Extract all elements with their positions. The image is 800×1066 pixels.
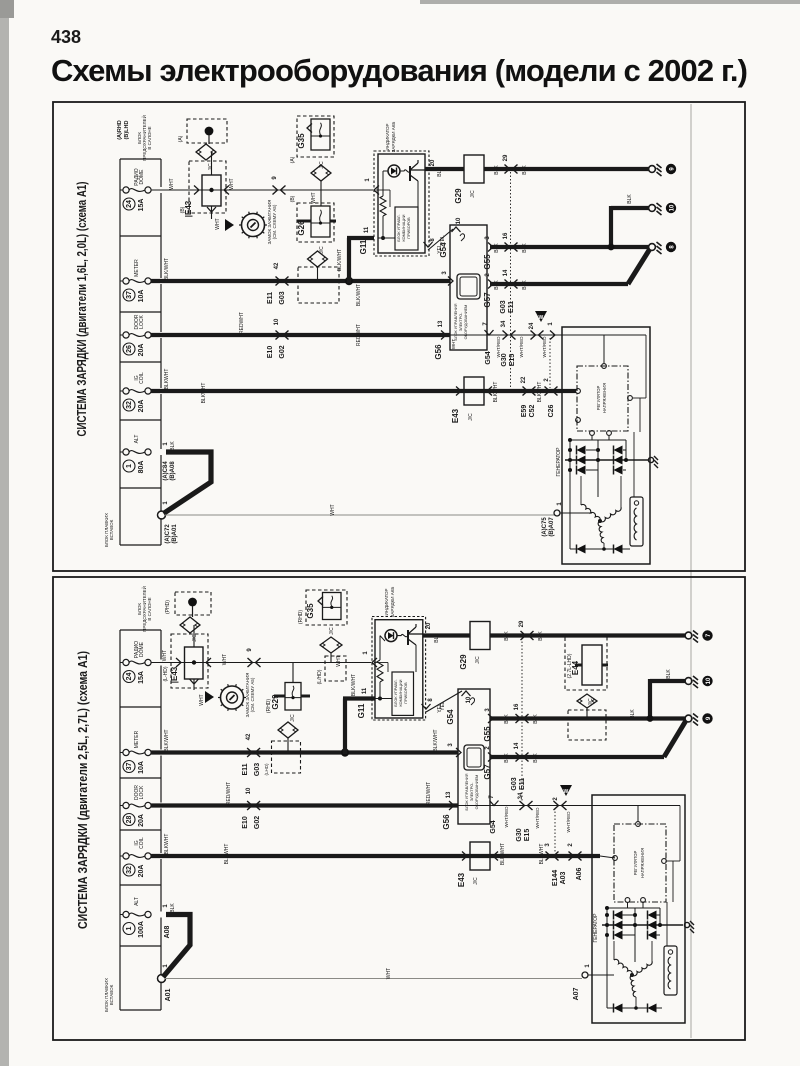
svg-text:BLK: BLK: [504, 753, 510, 763]
bus G57 to ground8 d1: [490, 282, 628, 286]
svg-text:16: 16: [503, 232, 509, 239]
svg-text:СИСТЕМА ЗАРЯДКИ (двигатели 1,6: СИСТЕМА ЗАРЯДКИ (двигатели 1,6L, 2,0L) (…: [75, 182, 89, 437]
svg-text:13: 13: [438, 320, 444, 327]
control block box in G11 d1: [395, 207, 418, 250]
svg-text:11: 11: [362, 687, 368, 694]
pin 7 G54 out d2: [490, 801, 499, 806]
svg-text:|E43: |E43: [184, 200, 193, 217]
fuse 1 80A: [120, 435, 151, 474]
svg-text:G56: G56: [434, 344, 443, 360]
svg-text:14: 14: [503, 269, 509, 276]
fuse 28 20A d2: [120, 785, 151, 827]
svg-text:LOCK: LOCK: [139, 315, 145, 329]
svg-text:WHT: WHT: [169, 178, 175, 189]
dashed enclosure at row2 junction d2: [272, 741, 301, 773]
svg-text:НАПРЯЖЕНИЯ: НАПРЯЖЕНИЯ: [640, 848, 645, 878]
svg-text:WHT: WHT: [336, 655, 342, 666]
svg-text:RED/WHT: RED/WHT: [426, 782, 432, 805]
svg-text:C52: C52: [529, 404, 536, 417]
svg-text:(В)A07: (В)A07: [549, 517, 555, 537]
charge lamp d1: [388, 165, 400, 177]
svg-text:BLK/WHT: BLK/WHT: [433, 729, 439, 751]
junction diamond below G26 d1: [308, 251, 328, 267]
svg-text:DOME: DOME: [139, 641, 145, 657]
svg-text:ALT: ALT: [134, 897, 140, 906]
svg-text:42: 42: [274, 262, 280, 269]
terminal A01 d2: [158, 975, 166, 983]
arrow to ignition lock d2: [205, 691, 214, 703]
rectifier rails d2: [606, 908, 608, 1008]
svg-text:(RHD): (RHD): [298, 610, 304, 624]
junction node ground9 bus d2: [647, 715, 654, 722]
svg-text:БЛОК УПРАВЛ.: БЛОК УПРАВЛ.: [397, 214, 401, 241]
svg-text:ИНДИКАТОР: ИНДИКАТОР: [384, 588, 389, 615]
svg-text:(LHD): (LHD): [264, 763, 269, 776]
svg-text:METER: METER: [134, 259, 140, 277]
body ECU box G54 d1: [450, 225, 487, 350]
svg-text:A07: A07: [573, 987, 580, 1000]
svg-text:(А): (А): [178, 135, 184, 142]
svg-text:(L-HD): (L-HD): [163, 666, 169, 681]
body ECU box G54 d2: [458, 689, 490, 824]
svg-text:G11: G11: [359, 239, 368, 254]
svg-text:BLKWHT: BLKWHT: [539, 844, 545, 865]
ignition lock symbol d1: [239, 212, 267, 239]
splice 34 G30/E15 d2: [518, 792, 533, 810]
junction diamond below G35 d1: [311, 165, 331, 181]
svg-text:(А)C84: (А)C84: [163, 461, 169, 481]
svg-text:ВСТАВОК: ВСТАВОК: [109, 984, 114, 1005]
regulator terminal right d1: [628, 396, 633, 401]
bus G11 to G29 to ground7 d2: [423, 633, 470, 637]
svg-text:20: 20: [426, 622, 432, 629]
svg-text:(PHD): (PHD): [165, 600, 171, 614]
svg-text:E44: E44: [571, 660, 580, 675]
svg-text:80A: 80A: [138, 461, 145, 474]
junction box E43 J/C on row4 d1: [464, 377, 484, 405]
voltage regulator dash-dot box d1: [577, 366, 628, 431]
svg-text:BLK: BLK: [494, 280, 500, 290]
svg-text:WHT/RED: WHT/RED: [535, 807, 540, 829]
pin 2 G57 d1: [488, 280, 493, 289]
svg-text:E11: E11: [519, 778, 526, 790]
pin 3 G55 d1: [488, 243, 493, 252]
svg-text:BLK/WHT: BLK/WHT: [500, 843, 506, 865]
svg-text:G35: G35: [306, 603, 315, 619]
pin 1 G11 d2: [372, 658, 377, 667]
pin 13 G56 d1: [441, 331, 446, 340]
svg-text:24: 24: [126, 673, 133, 681]
alternator input line d1: [558, 334, 646, 336]
svg-text:E43: E43: [457, 872, 466, 887]
field coil box d2: [664, 946, 677, 995]
svg-text:WHT: WHT: [162, 650, 168, 661]
svg-text:BLK: BLK: [494, 165, 500, 175]
svg-text:BLK: BLK: [533, 753, 539, 763]
svg-text:34: 34: [501, 320, 507, 327]
junction box G29 J/C d1: [464, 155, 484, 183]
svg-text:J/C: J/C: [290, 714, 296, 722]
rectifier diodes d2: [614, 911, 623, 920]
stator bottom diodes d2: [607, 1007, 662, 1009]
node above E43 d1: [205, 127, 214, 136]
svg-text:13: 13: [446, 791, 452, 798]
splice link dotted d2: [521, 638, 523, 802]
pin 3 G54 d2: [456, 748, 461, 757]
bus G55 to ground8 d1: [490, 245, 649, 249]
svg-text:G54: G54: [490, 820, 497, 833]
switch G26 dashed box d1: [297, 203, 334, 242]
svg-text:BLK/WHT: BLK/WHT: [351, 674, 357, 696]
svg-text:E59: E59: [521, 405, 528, 418]
junction box G29 J/C d2: [470, 622, 490, 650]
svg-text:BLK/WHT: BLK/WHT: [164, 258, 170, 280]
splice 3 E144/A03 d2: [545, 843, 559, 861]
svg-text:32: 32: [126, 401, 133, 409]
field coil box d1: [630, 497, 643, 546]
bus row4 BLK/WHT d1: [151, 389, 560, 393]
svg-text:26: 26: [126, 345, 133, 353]
connector E43 dashed enclosure d2: [175, 592, 211, 615]
ground 10 d2: [685, 676, 713, 688]
svg-text:34: 34: [518, 792, 524, 799]
splice 42 E11/G03 d1: [274, 262, 289, 285]
rectifier positive rail d2: [602, 924, 683, 926]
splice 29 d1: [503, 154, 518, 173]
svg-text:WHT: WHT: [386, 968, 392, 979]
splice 42 E11/G03 d2: [246, 733, 260, 757]
svg-text:10: 10: [706, 677, 712, 684]
pin 10 G54 d1: [452, 227, 461, 232]
junction box E43 J/C on row4 d2: [470, 842, 490, 870]
svg-text:РЕГУЛЯТОР: РЕГУЛЯТОР: [596, 386, 601, 411]
bus row3 RED/WHT d1: [151, 333, 450, 337]
svg-text:(В): (В): [290, 195, 296, 202]
rectifier positive rail d1: [565, 459, 648, 461]
svg-text:29: 29: [519, 620, 525, 627]
svg-text:BLKWHT: BLKWHT: [201, 383, 207, 404]
svg-text:G30: G30: [501, 353, 508, 366]
svg-text:20: 20: [430, 159, 436, 166]
switch G35 dashed box d2: [306, 590, 347, 625]
svg-text:WHT/RED: WHT/RED: [504, 806, 509, 828]
svg-text:E15: E15: [509, 354, 516, 367]
junction node row2 d1: [345, 277, 353, 285]
svg-text:WHT: WHT: [451, 339, 456, 349]
svg-text:В САЛОНЕ: В САЛОНЕ: [147, 597, 152, 620]
ground 7 d2: [685, 630, 713, 642]
svg-text:DOME: DOME: [139, 169, 145, 185]
splice link dotted d1: [510, 172, 512, 388]
warning arrow W d2: [560, 785, 572, 796]
svg-text:G56: G56: [442, 814, 451, 830]
svg-text:15A: 15A: [138, 671, 145, 684]
svg-text:ПРИБОРОВ: ПРИБОРОВ: [407, 217, 411, 239]
diagram frame 1: [53, 102, 745, 571]
svg-text:G35: G35: [297, 133, 306, 149]
svg-text:42: 42: [246, 733, 252, 740]
wire junction to G11 pin11 d2: [343, 699, 347, 755]
junction diamond below G29 d2: [278, 722, 298, 738]
svg-text:(А): (А): [290, 156, 296, 163]
svg-text:15A: 15A: [138, 199, 145, 212]
bus G55 to ground9 d2: [490, 716, 686, 720]
svg-text:10A: 10A: [138, 761, 145, 774]
regulator terminal left d1: [576, 389, 581, 394]
bus G11 to G29 to ground9 d1: [425, 167, 464, 171]
wire junction to G11 pin11 d1: [347, 238, 351, 283]
svg-text:22: 22: [521, 376, 527, 383]
svg-text:BLK: BLK: [504, 714, 510, 724]
svg-text:W: W: [564, 789, 569, 795]
ground 9 d2: [685, 713, 713, 725]
connector symbol inside G54 d2: [464, 745, 484, 770]
svg-text:BLK/WHT: BLK/WHT: [356, 284, 362, 306]
svg-text:10: 10: [274, 318, 280, 325]
splice 9 on row1 d1: [272, 176, 286, 195]
svg-text:BLKWHT: BLKWHT: [164, 369, 170, 390]
fuse box (interior) outline d1: [120, 159, 161, 545]
svg-text:BLK: BLK: [504, 631, 510, 641]
svg-text:14: 14: [514, 742, 520, 749]
svg-text:W: W: [539, 315, 544, 321]
regulator terminal right d2: [662, 859, 667, 864]
regulator terminals bottom d2: [625, 898, 630, 903]
wire E43 to ignition lock d1: [211, 206, 213, 219]
alternator case ground d1: [648, 457, 653, 462]
svg-text:ГЕНЕРАТОР: ГЕНЕРАТОР: [593, 913, 599, 943]
svg-text:(СМ. СХЕМУ А5): (СМ. СХЕМУ А5): [272, 204, 277, 239]
svg-text:БЛОК УПРАВЛ.: БЛОК УПРАВЛ.: [394, 679, 398, 706]
page crease line: [690, 104, 692, 1038]
svg-text:10: 10: [456, 217, 462, 224]
dashed enclosure at row2 junction d1: [298, 267, 339, 303]
svg-text:G03: G03: [511, 777, 518, 790]
svg-text:J/C: J/C: [468, 413, 474, 421]
terminal C72/A01 d1: [158, 511, 166, 519]
svg-text:BLK: BLK: [522, 165, 528, 175]
charge indicator dashed box G11 d1: [374, 151, 429, 256]
svg-text:32: 32: [126, 866, 133, 874]
svg-text:G02: G02: [279, 345, 286, 358]
junction node row2 d2: [341, 748, 349, 756]
svg-text:YEL: YEL: [440, 701, 446, 711]
svg-text:438: 438: [51, 27, 81, 47]
relay box E43 d2: [185, 647, 204, 679]
ground 10 d1: [649, 203, 677, 215]
fuse 1 100A d2: [120, 897, 151, 938]
junction diamond J/C above E43 d1: [196, 144, 216, 160]
bus row4 BLK/WHT d2: [151, 854, 592, 858]
svg-text:G11: G11: [357, 703, 366, 718]
splice 10 E10/G02 d1: [274, 318, 289, 339]
svg-text:11: 11: [364, 226, 370, 233]
junction node ground8 bus d1: [608, 244, 615, 251]
svg-text:G03: G03: [279, 291, 286, 304]
svg-text:(А)RHD: (А)RHD: [117, 120, 123, 140]
svg-text:10A: 10A: [138, 290, 145, 303]
svg-text:E43: E43: [451, 408, 460, 423]
svg-text:В САЛОНЕ: В САЛОНЕ: [147, 126, 152, 149]
fuse 37 10A: [120, 259, 151, 303]
svg-text:G03: G03: [254, 763, 261, 776]
charge indicator unit box d1: [378, 154, 425, 253]
ground 10 wire d1: [611, 206, 649, 210]
connector E43 dashed box d2: [171, 634, 208, 688]
svg-text:REDWHT: REDWHT: [239, 312, 245, 334]
svg-text:20A: 20A: [138, 344, 145, 357]
svg-text:BLK/WHT: BLK/WHT: [164, 729, 170, 751]
svg-text:METER: METER: [134, 730, 140, 748]
svg-text:WHT: WHT: [311, 192, 317, 203]
svg-text:J/C: J/C: [192, 634, 198, 642]
splice 22 E59/C52 d1: [521, 376, 536, 395]
splice 29 d2: [519, 620, 534, 640]
svg-text:1: 1: [126, 926, 133, 930]
voltage regulator dash-dot box d2: [614, 824, 666, 902]
alternator case ground d2: [684, 922, 689, 927]
svg-text:20A: 20A: [138, 814, 145, 827]
svg-text:10: 10: [246, 787, 252, 794]
svg-text:BLK: BLK: [170, 903, 176, 913]
alternator input line d2: [637, 806, 639, 823]
svg-text:СИСТЕМА ЗАРЯДКИ (двигатели 2,5: СИСТЕМА ЗАРЯДКИ (двигатели 2,5L, 2,7L) (…: [76, 651, 90, 929]
svg-text:|E43: |E43: [170, 666, 179, 683]
connector symbol inside G54 d1: [457, 274, 480, 299]
svg-text:G54: G54: [485, 351, 492, 364]
svg-text:ALT: ALT: [134, 435, 140, 444]
junction box E44 d2: [582, 645, 602, 685]
svg-text:24: 24: [529, 322, 535, 329]
scan edge shading: [0, 0, 9, 1066]
svg-text:E10: E10: [267, 346, 274, 359]
svg-text:COIL: COIL: [139, 372, 145, 384]
connector E43 dashed box d1: [189, 161, 226, 213]
pin 8 YEL wire d2: [422, 704, 431, 709]
svg-text:J/C: J/C: [470, 190, 476, 198]
svg-text:БЛОК УПРАВЛЕНИЯ: БЛОК УПРАВЛЕНИЯ: [465, 773, 469, 810]
fuse 24 15A d2: [120, 641, 151, 684]
svg-text:BLKWHT: BLKWHT: [224, 844, 230, 865]
wire WHT A01 to alternator d2: [165, 978, 582, 980]
svg-text:20A: 20A: [138, 865, 145, 878]
dashed enclosure at row1 junction d2: [325, 656, 346, 681]
regulator terminal left d2: [613, 856, 618, 861]
pin 3 G54 d1: [448, 277, 453, 286]
battery feed wire fuse1 to A01 d1: [164, 452, 212, 514]
svg-text:BLK: BLK: [630, 709, 636, 719]
svg-text:ПРЕДОХРАНИТЕЛЕЙ: ПРЕДОХРАНИТЕЛЕЙ: [140, 586, 147, 632]
switch G35 dashed box d1: [297, 116, 334, 157]
bus row3 RED/WHT d2: [151, 803, 458, 807]
regulator terminal left2 d1: [576, 418, 581, 423]
splice 9 on row1 d2: [247, 648, 261, 667]
pin 8 YEL wire d1: [424, 242, 433, 247]
warning arrow W d1: [535, 311, 547, 322]
svg-text:A03: A03: [560, 871, 567, 884]
svg-text:WHT/RED: WHT/RED: [519, 336, 524, 358]
svg-text:G30: G30: [516, 828, 523, 841]
pin 10 G54 d2: [462, 691, 471, 696]
svg-text:ИНДИКАТОР: ИНДИКАТОР: [385, 123, 390, 150]
svg-text:BLK: BLK: [522, 243, 528, 253]
ground 8 d1: [649, 242, 677, 254]
svg-text:(RHD): (RHD): [266, 699, 272, 713]
bus G57 to ground9 d2: [490, 755, 664, 759]
svg-text:BLK: BLK: [533, 714, 539, 724]
svg-text:LOCK: LOCK: [139, 785, 145, 799]
regulator terminal top d1: [602, 364, 607, 369]
svg-text:E11: E11: [242, 763, 249, 775]
svg-text:RED/WHT: RED/WHT: [226, 782, 232, 805]
svg-text:G02: G02: [254, 816, 261, 829]
svg-text:16: 16: [514, 703, 520, 710]
svg-text:ПРЕДОХРАНИТЕЛЕЙ: ПРЕДОХРАНИТЕЛЕЙ: [140, 115, 147, 161]
bus row2 BLK/WHT d2: [151, 750, 458, 754]
stator bottom diodes d1: [570, 548, 630, 550]
svg-text:BLK: BLK: [522, 280, 528, 290]
splice 10 E10/G02 d2: [246, 787, 260, 810]
svg-text:ЗАРЯДКИ АКБ: ЗАРЯДКИ АКБ: [390, 587, 395, 618]
switch G29 d2: [292, 663, 294, 683]
rectifier diodes d1: [577, 446, 586, 455]
svg-text:WHT: WHT: [222, 654, 228, 665]
wire row1 WHT d2: [151, 662, 371, 664]
junction diamond J/C above E43 d2: [180, 617, 200, 633]
svg-text:BLK: BLK: [627, 194, 633, 204]
svg-text:E11: E11: [508, 301, 515, 313]
battery feed wire fuse1 to A01 d2: [163, 915, 190, 978]
splice 2 A06 d2: [568, 843, 582, 861]
ignition lock symbol d2: [218, 684, 246, 711]
terminal A07 d2: [582, 972, 588, 978]
connector E43 dashed enclosure d1: [187, 119, 227, 143]
svg-text:РЕГУЛЯТОР: РЕГУЛЯТОР: [633, 851, 638, 876]
transistor in G11 d2: [407, 630, 409, 645]
svg-text:WHT/RED: WHT/RED: [542, 336, 547, 358]
svg-text:BLKWHT: BLKWHT: [537, 382, 543, 403]
pin 7 G54 out d1: [485, 330, 494, 335]
svg-text:J/C: J/C: [329, 627, 335, 635]
svg-text:WHT: WHT: [330, 504, 336, 515]
regulator terminal top d2: [636, 822, 641, 827]
svg-text:НАПРЯЖЕНИЯ: НАПРЯЖЕНИЯ: [602, 383, 607, 413]
splice 24 d1: [529, 322, 544, 339]
terminal C75/A07 d1: [554, 510, 560, 516]
svg-text:КОМБИНАЦИИ: КОМБИНАЦИИ: [399, 679, 403, 706]
svg-text:G29: G29: [454, 188, 463, 204]
svg-text:WHT: WHT: [229, 178, 235, 189]
control block box in G11 d2: [392, 672, 414, 715]
junction diamond below G35 d2: [320, 637, 342, 653]
svg-text:Схемы электрооборудования (мод: Схемы электрооборудования (модели с 2002…: [51, 53, 748, 88]
svg-text:(В)A01: (В)A01: [172, 524, 178, 544]
svg-text:(L/HD): (L/HD): [317, 669, 323, 684]
svg-text:ВСТАВОК: ВСТАВОК: [109, 519, 114, 540]
svg-text:(А)C72: (А)C72: [165, 524, 171, 544]
svg-text:ГЕНЕРАТОР: ГЕНЕРАТОР: [556, 447, 562, 477]
charge lamp d2: [385, 630, 397, 642]
resistor in G11 d2: [380, 636, 385, 641]
svg-text:BLK/WHT: BLK/WHT: [337, 249, 343, 271]
switch G35 d1: [311, 119, 330, 150]
splice 14 d2: [514, 742, 529, 761]
stator windings d2: [630, 973, 634, 977]
svg-text:(СМ. СХЕМУ А5): (СМ. СХЕМУ А5): [250, 677, 255, 712]
svg-text:24: 24: [126, 200, 133, 208]
pin 1 G11 d1: [374, 186, 379, 195]
splice 14 d1: [503, 269, 518, 288]
